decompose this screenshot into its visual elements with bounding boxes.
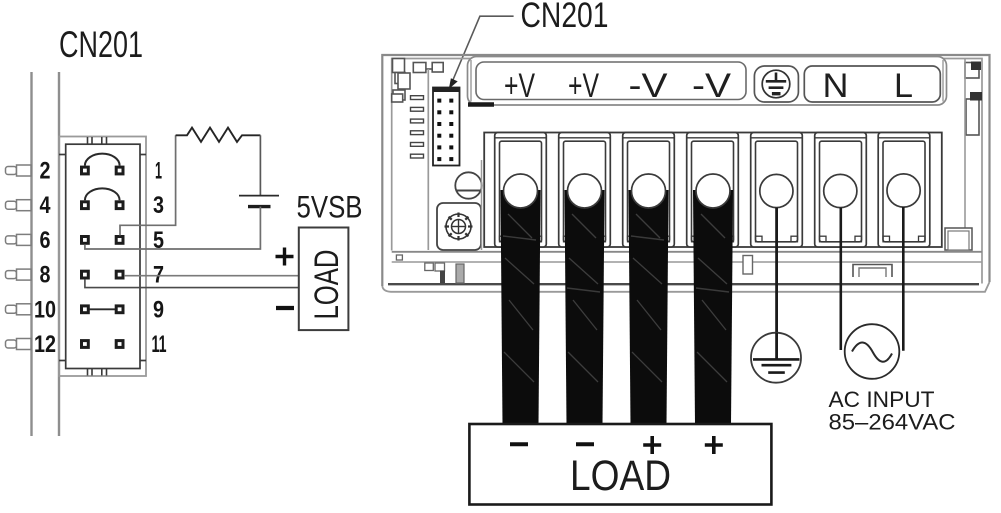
connector tab pin 8 — [6, 269, 32, 280]
wire capacitor to pin6 — [85, 207, 261, 249]
pin square 11 — [115, 339, 125, 349]
terminal cell L — [878, 133, 930, 248]
input label plate N L — [804, 66, 940, 102]
case bottom edge — [388, 283, 979, 285]
svg-text:9: 9 — [153, 296, 164, 323]
pin number 5 — [153, 227, 164, 254]
svg-text:8: 8 — [40, 262, 51, 289]
wire pin5 to resistor — [120, 135, 176, 235]
screw head — [455, 172, 481, 198]
fuse square A — [413, 63, 426, 73]
ground label plate — [754, 66, 798, 102]
component small square E — [392, 94, 403, 102]
capacitor bottom plate — [248, 205, 271, 208]
housing key ticks top — [88, 137, 107, 144]
wire pin7 to load plus — [124, 275, 299, 277]
pin square 1 — [115, 166, 125, 176]
svg-text:5VSB: 5VSB — [297, 189, 363, 225]
bottom rail line 1 — [392, 251, 982, 253]
pin header pins — [437, 99, 453, 162]
load minus terminal 2 — [576, 442, 594, 446]
svg-text:10: 10 — [34, 296, 56, 323]
svg-text:LOAD: LOAD — [308, 250, 346, 320]
connector CN201 outer housing — [59, 137, 146, 377]
housing notch bottom-right — [140, 360, 146, 362]
pin number 9 — [153, 296, 164, 323]
pin number 3 — [153, 192, 164, 219]
housing notch top-right — [140, 154, 146, 156]
main load box — [469, 424, 771, 505]
earth ground symbol — [751, 333, 801, 383]
fuse link — [426, 68, 432, 70]
pin square 10 — [80, 304, 90, 314]
jumper arc pins 4-3 — [85, 188, 120, 200]
housing notch top-left — [59, 154, 66, 156]
screw circle terminal ground — [760, 174, 793, 207]
minus sign at 5VSB load — [276, 306, 294, 310]
pin number 6 — [40, 227, 51, 254]
svg-text:-V: -V — [692, 67, 731, 105]
pin number 2 — [40, 158, 51, 185]
interior wall line — [427, 69, 429, 250]
interior wall right of pot — [481, 160, 483, 250]
wire resistor to capacitor — [259, 135, 261, 195]
resistor — [176, 128, 261, 142]
pin number 7 — [153, 262, 164, 289]
connector tab pin 6 — [6, 234, 32, 245]
load plus terminal 4 — [705, 436, 723, 454]
component block left C — [398, 73, 410, 89]
wire from -V terminal 2 — [693, 190, 733, 425]
terminal cell ground — [751, 133, 803, 248]
right side detail dark square B — [970, 92, 982, 101]
strip mounting mark dark — [468, 102, 494, 107]
svg-text:L: L — [894, 67, 913, 105]
foot detail B — [425, 263, 434, 271]
screw circle terminal L — [887, 174, 920, 207]
leader line to CN201 header — [449, 16, 514, 89]
pin square 6 — [80, 235, 90, 245]
pin number 12 — [34, 331, 56, 358]
svg-text:LOAD: LOAD — [570, 452, 671, 500]
standoff top-left A — [393, 59, 405, 73]
case bottom 3d face — [382, 282, 989, 292]
label strip outer — [468, 57, 947, 106]
connector tab pin 2 — [6, 165, 32, 176]
wire ground terminal to earth — [775, 208, 778, 359]
output label plate +V+V-V-V — [476, 62, 746, 100]
label -V (2) — [692, 67, 731, 105]
terminal cell -V 2 — [687, 133, 739, 248]
screw circle terminal 3 — [632, 174, 666, 208]
svg-text:3: 3 — [153, 192, 164, 219]
label 5VSB — [297, 189, 363, 225]
screw circle terminal 4 — [696, 174, 730, 208]
load plus terminal 3 — [643, 436, 661, 454]
right bottom box — [945, 228, 972, 250]
power supply case inner wall — [392, 59, 982, 284]
label AC INPUT — [829, 387, 935, 412]
right side inner wall — [964, 59, 966, 250]
housing notch bottom-left — [59, 360, 66, 362]
screw circle terminal 2 — [568, 174, 602, 208]
label CN201 (left connector title) — [59, 24, 143, 65]
jumper wire pins 10-9 — [89, 308, 115, 310]
potentiometer housing — [437, 203, 481, 250]
panel edge line right — [58, 72, 60, 436]
foot bar gray — [456, 264, 464, 283]
pin square 8 — [80, 270, 90, 280]
header side ticks — [411, 96, 424, 158]
terminal cell -V 1 — [623, 133, 675, 248]
right side detail rect B — [966, 99, 979, 135]
svg-text:6: 6 — [40, 227, 51, 254]
label L — [894, 67, 913, 105]
wire from +V terminal 1 — [501, 190, 541, 425]
standoff top-left B — [395, 73, 405, 84]
terminal block body — [484, 133, 942, 248]
label -V (1) — [629, 67, 668, 105]
panel edge line left — [30, 72, 32, 436]
pin square 9 — [115, 304, 125, 314]
5VSB load box — [299, 228, 349, 331]
pin square 4 — [80, 200, 90, 210]
load box text — [570, 452, 671, 500]
5VSB load box text — [308, 250, 346, 320]
svg-text:+V: +V — [504, 67, 535, 105]
fuse square B — [432, 63, 443, 73]
pin number 1 — [155, 158, 162, 185]
pin number 4 — [40, 192, 52, 219]
label +V (2) — [568, 67, 599, 105]
potentiometer dial — [445, 213, 473, 241]
pin square 7 — [115, 270, 125, 280]
svg-text:AC INPUT: AC INPUT — [829, 387, 935, 412]
pin header CN201 body — [433, 88, 460, 166]
svg-text:+V: +V — [568, 67, 599, 105]
label N — [823, 67, 849, 105]
connector CN201 inner housing — [66, 144, 140, 368]
wire from -V terminal 1 — [629, 190, 669, 425]
jumper arc pins 2-1 — [85, 154, 120, 166]
pin number 10 — [34, 296, 56, 323]
wire from +V terminal 2 — [565, 190, 605, 425]
power supply case outer — [382, 55, 989, 286]
foot pin dark — [440, 271, 445, 284]
svg-text:4: 4 — [40, 192, 52, 219]
svg-text:-V: -V — [629, 67, 668, 105]
svg-text:N: N — [823, 67, 849, 105]
label strip right bracket — [942, 60, 944, 102]
component small square D — [393, 90, 405, 100]
screw circle terminal 1 — [504, 174, 538, 208]
connector tab pin 4 — [6, 200, 32, 211]
pin square 2 — [80, 166, 90, 176]
bottom rail line 2 — [392, 261, 982, 263]
label strip left bracket — [470, 60, 472, 102]
label +V (1) — [504, 67, 535, 105]
svg-text:CN201: CN201 — [521, 0, 609, 35]
terminal cell N — [815, 133, 867, 248]
label 85-264VAC — [829, 410, 956, 435]
wire L terminal to AC source — [902, 207, 905, 351]
pin square 3 — [115, 200, 125, 210]
foot detail C — [435, 263, 445, 271]
svg-text:11: 11 — [152, 331, 167, 358]
plus sign at 5VSB load — [276, 248, 294, 266]
svg-text:2: 2 — [40, 158, 51, 185]
svg-text:12: 12 — [34, 331, 56, 358]
svg-text:85–264VAC: 85–264VAC — [829, 410, 956, 435]
pin square 12 — [80, 339, 90, 349]
label CN201 (power supply header) — [521, 0, 609, 35]
connector tab pin 12 — [6, 339, 32, 350]
capacitor top plate — [239, 195, 279, 197]
connector tab pin 10 — [6, 304, 32, 315]
housing key ticks bottom — [88, 369, 107, 376]
ground label symbol — [762, 70, 790, 98]
right side detail dark square A — [971, 62, 981, 71]
wire pin8 to load minus — [85, 279, 299, 288]
terminal cell +V 1 — [495, 133, 547, 248]
svg-text:CN201: CN201 — [59, 24, 143, 65]
load minus terminal 1 — [510, 442, 528, 446]
foot detail A — [396, 255, 402, 260]
bottom bump under N — [853, 265, 892, 278]
right side detail rect A — [965, 63, 979, 79]
pin number 8 — [40, 262, 51, 289]
pin number 11 — [152, 331, 167, 358]
pin square 5 — [115, 235, 125, 245]
svg-text:1: 1 — [155, 158, 162, 185]
AC source symbol — [845, 324, 900, 379]
wire N terminal to AC source — [839, 208, 842, 350]
screw circle terminal N — [824, 174, 857, 207]
terminal cell +V 2 — [559, 133, 611, 248]
foot rect mid — [743, 256, 753, 275]
